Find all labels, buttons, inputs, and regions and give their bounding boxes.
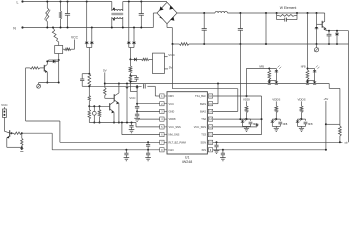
resistor R7 base <box>26 67 45 69</box>
wire L6 link <box>122 123 160 135</box>
regulator U3 <box>153 53 165 73</box>
led D7 <box>269 65 281 80</box>
ground chassis <box>314 44 318 52</box>
svg-text:NFB: NFB <box>253 124 258 126</box>
wire vdds feed <box>307 12 309 70</box>
capacitor C2 bulk <box>202 12 207 45</box>
resistor R15 boxed <box>3 109 7 131</box>
wire output node <box>326 30 349 32</box>
wire N rail <box>23 27 154 29</box>
arrow gnd A3 <box>306 81 310 85</box>
label out net <box>345 143 349 145</box>
node N input terminal <box>13 26 23 30</box>
wire gnd bus <box>89 122 136 124</box>
wire vcc chain top <box>136 86 139 104</box>
transistor Q1 <box>44 60 48 72</box>
resistor R6 <box>63 48 75 50</box>
diode D11 sense <box>255 124 258 127</box>
wire base node <box>10 132 14 134</box>
wire ins rail right <box>213 149 326 151</box>
wire output right rail <box>348 31 350 143</box>
wire base to ins <box>22 133 52 150</box>
wire vdd feed stub <box>265 12 267 45</box>
svg-text:VCC: VCC <box>1 103 8 107</box>
svg-text:VCC: VCC <box>71 36 79 40</box>
diode D10 <box>129 58 136 62</box>
inductor L1 <box>215 11 227 13</box>
node 5V bias <box>103 69 107 88</box>
wire L sense drop 2 <box>128 1 130 42</box>
svg-text:5V: 5V <box>103 69 107 73</box>
wire vcc pin link <box>137 103 160 105</box>
svg-text:FAN: FAN <box>169 148 174 152</box>
wire opto down <box>58 54 60 62</box>
wire emitter gnd node <box>39 61 60 83</box>
svg-text:TS2: TS2 <box>201 117 206 121</box>
capacitor C14 <box>214 141 218 150</box>
wire N sense drop <box>91 27 93 42</box>
svg-text:SDN: SDN <box>201 140 207 144</box>
svg-text:VDDI: VDDI <box>243 98 250 102</box>
svg-text:W Element: W Element <box>280 6 297 10</box>
arrow net down <box>20 147 24 151</box>
wire ts3 pin <box>213 134 262 136</box>
wire sdn rail left <box>60 141 160 143</box>
transistor Q2a <box>114 83 120 124</box>
resistor R12 <box>104 88 115 99</box>
label net 1 <box>259 65 264 68</box>
resistor R17 <box>21 133 23 147</box>
wire N rail to bridge <box>153 13 157 28</box>
wire row A horizontal <box>246 68 270 70</box>
capacitor C3 bulk <box>238 12 243 45</box>
ground G5 <box>134 118 140 121</box>
node VCC out <box>164 53 175 57</box>
resistor R5 <box>306 69 309 82</box>
lamp LP1 <box>92 106 96 123</box>
svg-text:+5V: +5V <box>324 97 329 101</box>
wire gnd pin link <box>137 110 160 112</box>
node plus5v <box>324 97 329 150</box>
node VDDI divider <box>241 98 258 132</box>
arrow gnd A2 <box>275 81 279 85</box>
capacitor CX1 <box>65 1 70 29</box>
node 5V out <box>164 65 173 69</box>
capacitor C13 <box>124 149 128 158</box>
wire feedback stair <box>329 84 340 125</box>
inductor T1 common mode choke <box>111 2 124 29</box>
svg-text:NFB: NFB <box>301 65 306 68</box>
wire dc+ rail <box>177 12 325 14</box>
snubber R2 C4 <box>276 12 298 22</box>
resistor R10 cap C6 <box>129 76 139 89</box>
capacitor C5 output <box>327 31 332 45</box>
diode D6 output <box>335 31 339 45</box>
node VCC bottom <box>1 103 8 109</box>
wire choke to bridge <box>123 1 167 3</box>
wire cathode join 2 <box>129 48 134 60</box>
wire A extension <box>0 0 1 1</box>
wire vccsns pin <box>213 126 257 128</box>
svg-text:NFB: NFB <box>308 124 313 126</box>
wire bridge to dc return <box>167 24 172 44</box>
capacitor C12 <box>146 150 150 158</box>
svg-text:VCC: VCC <box>168 53 175 57</box>
diode D3 <box>127 42 131 48</box>
diode D5 gate <box>315 24 319 45</box>
resistor R3 sense <box>179 43 189 46</box>
wire vddi feed <box>246 69 248 98</box>
wire L4 link <box>139 118 160 120</box>
wire ts2 to rail <box>239 44 241 119</box>
resistor R11 cap C7 <box>80 60 91 107</box>
svg-text:N: N <box>13 26 16 30</box>
wire bias A <box>105 83 329 104</box>
wire fb vertical <box>261 96 263 135</box>
capacitor C10 <box>129 123 133 130</box>
svg-text:VCC: VCC <box>169 102 175 106</box>
led D8 <box>308 65 320 80</box>
node L input terminal <box>17 0 24 4</box>
transistor Q3 <box>322 13 326 31</box>
label net 2 <box>301 65 306 68</box>
ground G12 <box>220 158 226 161</box>
svg-text:TS1_BLF: TS1_BLF <box>195 94 206 98</box>
resistor R8 <box>136 58 152 60</box>
svg-text:NM_SNS: NM_SNS <box>169 133 180 137</box>
diode D2 <box>90 42 94 48</box>
ground G6 <box>129 130 135 133</box>
resistor R14 <box>98 106 101 123</box>
resistor R4 <box>268 69 271 82</box>
svg-text:TS3: TS3 <box>201 133 206 137</box>
node VDDS divider 2 <box>296 98 313 132</box>
svg-text:BIAS: BIAS <box>200 110 206 114</box>
svg-text:VCC_SNS: VCC_SNS <box>194 125 207 129</box>
node VCC ic <box>129 96 135 100</box>
capacitor C16 series <box>144 84 146 88</box>
svg-text:NFB: NFB <box>259 65 264 68</box>
resistor R1 line discharge <box>59 1 61 29</box>
svg-text:VDDS: VDDS <box>297 98 305 102</box>
bridge rectifier BR1 <box>157 2 177 23</box>
resistor R9 <box>129 59 132 76</box>
ground G10 <box>124 158 130 161</box>
wire base net long <box>26 68 60 142</box>
wire ts2 pin <box>213 118 262 120</box>
wire sdn rail right <box>213 141 343 143</box>
capacitor C9 <box>135 111 139 118</box>
ground G1 <box>37 83 41 89</box>
label W Element <box>280 6 297 10</box>
svg-text:U1: U1 <box>185 156 190 160</box>
transistor Q2b <box>110 102 115 124</box>
wire N sense drop 2 <box>133 27 135 42</box>
wire drv link <box>155 86 159 96</box>
capacitor C1 bridge input <box>139 1 144 29</box>
diode D4 <box>132 42 136 48</box>
svg-text:VDDS: VDDS <box>272 98 280 102</box>
svg-text:BIAS: BIAS <box>200 102 206 106</box>
svg-text:GND: GND <box>169 110 175 114</box>
svg-text:iW248: iW248 <box>182 160 192 164</box>
label iW248 <box>182 160 192 164</box>
svg-text:VCC: VCC <box>129 96 135 100</box>
ground G11 <box>214 150 220 153</box>
wire bias B <box>88 85 155 87</box>
svg-text:VDD8: VDD8 <box>169 117 176 121</box>
resistor R13 <box>88 106 91 122</box>
fusible resistor RF1 <box>52 27 59 46</box>
resistor R16 <box>14 132 23 134</box>
pins U1 <box>160 94 213 152</box>
arrow gnd A4 <box>313 81 317 85</box>
svg-text:RLT_BZ_PWM: RLT_BZ_PWM <box>169 140 186 144</box>
svg-text:L: L <box>17 0 19 4</box>
label U1 <box>185 156 190 160</box>
capacitor C11 <box>146 141 150 151</box>
optocoupler U2 <box>55 46 63 54</box>
ground G9 <box>145 158 151 161</box>
svg-text:NFB: NFB <box>283 124 288 126</box>
wire base line q2 <box>89 105 109 107</box>
svg-text:VCC_SNS: VCC_SNS <box>169 125 182 129</box>
diode D9 <box>49 60 59 64</box>
node VCC top <box>71 36 79 50</box>
arrow gnd A1 <box>267 81 271 85</box>
wire gate feed <box>316 12 323 24</box>
wire L rail <box>23 1 112 3</box>
capacitor C15 <box>221 149 225 158</box>
svg-text:INS: INS <box>202 148 207 152</box>
capacitor C8 <box>135 104 139 113</box>
diode D1 <box>85 42 89 48</box>
resistor R18 <box>339 124 342 143</box>
integrated circuit U1 body <box>167 92 207 154</box>
svg-text:DRV: DRV <box>169 94 175 98</box>
wire sense E drop <box>125 84 128 123</box>
wire cathode join 1 <box>87 48 92 61</box>
node VDDS divider 1 <box>271 98 288 132</box>
wire dc return rail <box>172 43 348 45</box>
wire fb bottom link <box>325 123 340 151</box>
wire r10 to vcc chain <box>130 89 137 92</box>
wire L5 link <box>136 123 160 127</box>
wire L sense drop <box>86 1 88 42</box>
wire ts1 pin <box>213 95 262 97</box>
wire bias C <box>172 43 238 111</box>
varistor RV1 <box>44 1 50 29</box>
wire emitter loop <box>7 138 23 148</box>
wire ins rail left <box>52 149 160 151</box>
transistor Q4 <box>4 130 9 138</box>
